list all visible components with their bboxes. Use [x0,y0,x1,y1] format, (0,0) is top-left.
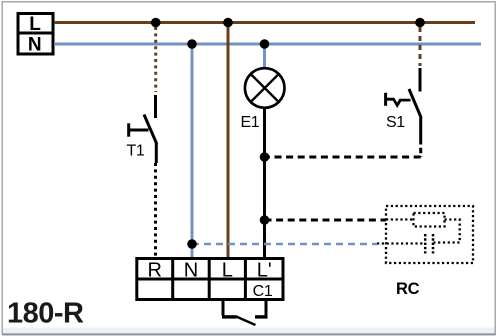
svg-text:L: L [222,260,233,282]
terminal L [222,260,233,282]
terminal R [147,260,161,282]
svg-text:R: R [147,260,161,282]
switch T1 (external pushbutton) [129,95,157,163]
internal relay contact C1 [222,300,268,326]
terminal block [137,259,283,300]
wire: blue drop to terminal N [191,44,194,258]
label S1 [386,114,405,131]
junction dot brown/S1 [415,18,425,28]
terminal L' [257,260,272,282]
resistor (RC) [414,213,445,227]
junction dot blue/lamp [260,39,270,49]
wire: S1 lower lead [419,118,422,158]
svg-text:C1: C1 [253,283,273,300]
svg-text:S1: S1 [386,114,405,131]
svg-text:L': L' [257,260,272,282]
wire: black dashed link lamp branch to RC [265,219,387,222]
label T1 [127,143,145,160]
junction dot lamp/RC link [260,215,270,225]
svg-text:T1: T1 [127,143,145,160]
wire: black lamp to terminal L' [263,108,266,258]
svg-text:RC: RC [396,280,420,298]
svg-text:L: L [29,14,41,35]
wire: blue dashed link N to RC [192,243,377,246]
label E1 [241,114,260,131]
junction dot brown/T1 [151,18,161,28]
lamp E1 [245,68,285,108]
wire: dotted black T1 to terminal R [154,163,157,258]
wire: brown drop to terminal L [227,23,230,259]
capacitor (RC) [425,234,433,254]
RC module box [386,206,473,263]
svg-text:N: N [28,35,42,56]
wire: brown dashed drop to S1 [419,27,422,66]
junction dot N/RC link [187,239,197,249]
wire: L phase bus (brown) [54,21,475,24]
wire: black dashed link lamp to S1 [265,156,421,159]
svg-text:N: N [184,260,198,282]
RC internal wire right [434,220,460,243]
wire: blue stub to lamp [263,44,266,69]
svg-text:E1: E1 [241,114,260,131]
junction dot lamp/S1 link [260,152,270,162]
supply terminal box L/N [18,14,53,56]
label 180-R [7,297,84,329]
switch S1 (external pushbutton with spring) [386,68,422,118]
junction dot blue/N drop [187,39,197,49]
label RC [396,280,420,298]
RC internal wire top [386,218,414,220]
wire: N neutral bus (blue) [54,43,481,46]
svg-text:180-R: 180-R [7,297,84,329]
terminal N [184,260,198,282]
label C1 [253,283,273,300]
junction dot brown/L drop [223,18,233,28]
wire: dotted brown drop to T1 [154,27,157,92]
RC internal wire bottom [377,242,425,244]
